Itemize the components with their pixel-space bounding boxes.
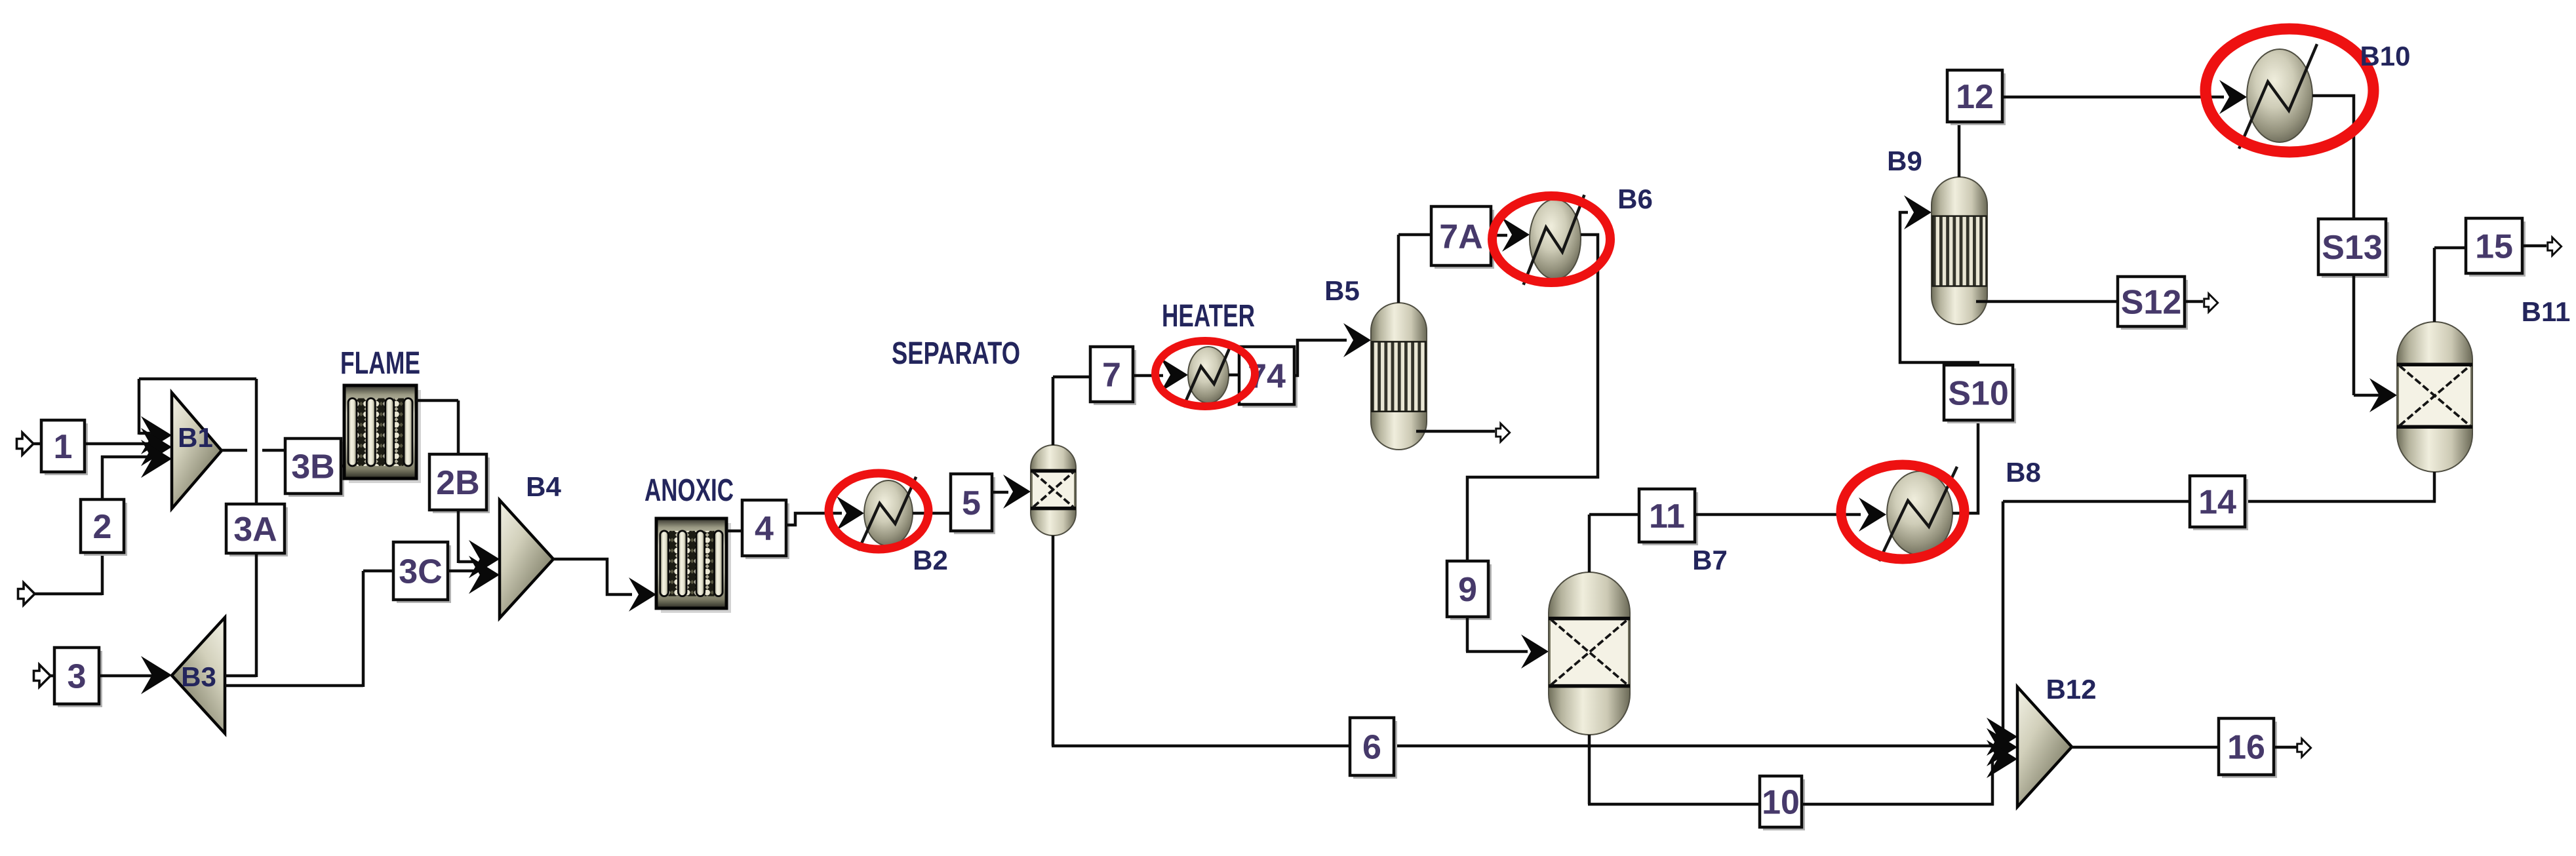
wire recycle into B1: [139, 432, 156, 435]
wire 4 to B2: [786, 513, 842, 525]
red annotation circle around B8: [1841, 465, 1964, 559]
wire S13 down: [2352, 275, 2356, 395]
wire 3B to FLAME: [341, 465, 344, 468]
wire B4 to ANOXIC: [553, 559, 632, 594]
wire B9 bottoms to S12: [1976, 300, 2118, 303]
arrowhead into B2: [837, 496, 864, 530]
product arrow 15: [2548, 237, 2562, 256]
wire feed to box 3: [50, 674, 54, 678]
wire feed to box 1: [33, 442, 41, 446]
stream box 4: [742, 500, 789, 559]
wire B12 outlet: [2072, 746, 2219, 749]
mixer B3: [172, 617, 225, 733]
stream box 6: [1350, 718, 1397, 779]
svg-text:B8: B8: [2006, 457, 2041, 488]
reactor ANOXIC: [656, 518, 731, 613]
svg-text:B12: B12: [2046, 674, 2096, 705]
stream box 15: [2466, 218, 2526, 277]
arrowhead into B6: [1502, 218, 1530, 252]
svg-text:4: 4: [755, 510, 774, 548]
svg-text:S12: S12: [2121, 284, 2182, 322]
arrowhead into B3: [141, 656, 172, 694]
wire 10 riser at B12: [1991, 759, 1994, 806]
svg-text:11: 11: [1649, 497, 1685, 535]
wire B7 bottom riser: [1588, 735, 1591, 804]
arrowhead into HEATER: [1160, 358, 1188, 392]
wire 2 to B1: [101, 456, 156, 459]
arrowhead into B1 (stream 1): [141, 428, 172, 466]
mixer B4: [500, 500, 553, 618]
wire 14 down to B12: [2002, 501, 2005, 749]
arrowhead into B10: [2219, 80, 2247, 114]
wire B1 outlet b: [262, 449, 285, 452]
svg-text:10: 10: [1762, 784, 1800, 822]
svg-text:2B: 2B: [436, 464, 479, 502]
heat exchanger B2: [858, 477, 916, 551]
wire B11 top riser: [2433, 248, 2436, 322]
arrowhead into B12 (stream 6): [1987, 718, 2017, 756]
red annotation circle around B2: [829, 473, 928, 549]
product arrow 16: [2297, 739, 2311, 757]
feed arrow stream 2: [18, 583, 35, 605]
svg-text:3B: 3B: [291, 448, 334, 486]
stream box 3C: [393, 542, 451, 603]
svg-text:2: 2: [93, 508, 112, 546]
arrowhead into B1 (recycle): [141, 416, 172, 454]
svg-text:15: 15: [2475, 228, 2513, 266]
stream box 3A: [226, 504, 288, 556]
svg-text:14: 14: [2198, 484, 2236, 522]
svg-text:7: 7: [1102, 357, 1121, 395]
wire down to 2B: [457, 400, 460, 454]
stream box 11: [1639, 489, 1698, 545]
svg-text:9: 9: [1458, 571, 1477, 609]
wire 2B down: [457, 510, 460, 563]
feed arrow stream 3: [34, 665, 51, 687]
arrowhead into B1 (stream 2): [141, 440, 172, 478]
wire recycle left drop: [138, 379, 141, 435]
stream box 10: [1760, 776, 1805, 830]
svg-text:1: 1: [54, 428, 73, 466]
svg-text:SEPARATO: SEPARATO: [892, 336, 1020, 371]
red annotation circle around HEATER: [1155, 341, 1255, 406]
wire into 3C: [363, 570, 393, 573]
wire 1 to B1: [85, 442, 153, 446]
stream box 2: [81, 499, 127, 556]
svg-text:HEATER: HEATER: [1162, 299, 1255, 334]
red annotation circle around B10: [2206, 29, 2373, 152]
arrowhead into B12 (stream 14): [1987, 728, 2017, 766]
svg-text:B2: B2: [913, 545, 948, 575]
stream box 5: [951, 474, 995, 534]
stream box 3: [54, 648, 102, 707]
arrowhead into ANOXIC: [629, 577, 656, 612]
wire SEPARATO top riser: [1052, 377, 1055, 445]
stream box 3B: [285, 438, 344, 497]
wire to box 10: [1588, 803, 1760, 806]
arrowhead into B8: [1859, 497, 1886, 532]
feed arrow stream 1: [17, 433, 34, 455]
column B5: [1371, 303, 1427, 450]
wire recycle top: [139, 378, 256, 381]
heat exchanger B8: [1879, 467, 1957, 561]
svg-text:5: 5: [962, 484, 981, 522]
arrowhead into B5: [1343, 323, 1371, 357]
wire S10 up to B9: [1900, 212, 1979, 362]
wire 15 out: [2522, 244, 2546, 248]
wire to box 15: [2434, 246, 2466, 250]
stream box S12: [2118, 277, 2188, 330]
wire stream 6 long run: [1052, 745, 1995, 748]
svg-text:3: 3: [68, 658, 87, 696]
column B9: [1932, 177, 1987, 324]
arrowhead into B7: [1521, 634, 1549, 669]
wire B8 outlet up (stream S10): [1952, 365, 1978, 513]
wire 7A to B6: [1491, 234, 1507, 237]
wire B11 bottoms (stream 14): [2003, 472, 2434, 501]
wire 3C to B4: [448, 570, 475, 573]
wire feed 2 horizontal: [34, 593, 102, 596]
svg-text:16: 16: [2227, 729, 2265, 767]
wire 10 run to B12: [1802, 803, 1994, 806]
arrowhead into SEPARATO: [1003, 475, 1031, 509]
stream box 74: [1239, 347, 1298, 408]
svg-text:B3: B3: [181, 661, 216, 692]
wire 12 to B10: [2002, 96, 2224, 99]
stream box 12: [1947, 70, 2006, 125]
stream box 1: [41, 420, 88, 475]
wire 9 to B7: [1466, 650, 1528, 653]
wire 3 to B3: [99, 674, 157, 678]
wire to B5: [1294, 340, 1347, 376]
product arrow B5 bottoms: [1496, 423, 1510, 442]
stream box 16: [2219, 718, 2277, 778]
wire 3A down to B3 outlet: [255, 553, 258, 677]
reactor FLAME: [344, 385, 421, 483]
svg-text:FLAME: FLAME: [340, 346, 420, 381]
svg-text:B10: B10: [2360, 41, 2410, 71]
wire B5 bottoms product: [1416, 430, 1495, 433]
svg-text:3C: 3C: [399, 553, 442, 591]
heat exchanger B10: [2239, 44, 2317, 149]
flash drum B7: [1549, 572, 1630, 735]
wire B10 outlet down (S13): [2312, 96, 2354, 219]
arrowhead into B11: [2369, 378, 2397, 412]
wire 5 out: [992, 491, 1008, 494]
svg-text:B9: B9: [1887, 146, 1922, 176]
stream box 9: [1447, 561, 1492, 620]
svg-text:B11: B11: [2522, 296, 2571, 327]
wire FLAME outlet: [416, 399, 458, 402]
svg-text:B6: B6: [1617, 184, 1653, 214]
arrowhead into B4 (2B): [469, 540, 500, 578]
mixer B12: [2017, 687, 2072, 807]
svg-text:6: 6: [1362, 729, 1381, 767]
wire 16 out: [2274, 746, 2297, 749]
arrowhead into B4 (3C): [469, 556, 500, 594]
stream box S13: [2318, 219, 2389, 278]
wire S12 out: [2185, 300, 2203, 303]
flash drum B11: [2397, 322, 2472, 472]
wire B3 outlet 2: [225, 684, 363, 688]
wire B1 outlet a: [222, 449, 247, 452]
wire 2 riser to B1: [101, 456, 104, 499]
svg-text:B1: B1: [178, 422, 213, 453]
stream box 14: [2190, 476, 2248, 530]
svg-text:B4: B4: [526, 471, 561, 502]
mixer B1: [172, 393, 222, 509]
wire B6 outlet to box 9: [1467, 235, 1598, 561]
flash drum SEPARATO: [1031, 445, 1076, 535]
wire B2 to box 5: [913, 512, 951, 515]
wire B3 outlet to 3A riser: [225, 674, 256, 678]
red annotation circle around B6: [1492, 196, 1610, 282]
wire riser to 3C: [362, 571, 365, 687]
wire 2B to B4: [458, 560, 473, 564]
svg-text:S10: S10: [1948, 375, 2009, 413]
svg-text:B5: B5: [1324, 275, 1360, 306]
wire B9 top riser: [1958, 122, 1961, 177]
wire B7 top riser: [1588, 515, 1591, 572]
svg-text:12: 12: [1956, 78, 1994, 116]
wire SEPARATO bottom riser (stream 6): [1052, 535, 1055, 746]
wire to box 7: [1053, 376, 1090, 379]
svg-text:3A: 3A: [233, 511, 277, 549]
svg-text:B7: B7: [1692, 545, 1728, 575]
wire 11 to B8: [1695, 513, 1861, 516]
svg-text:S13: S13: [2322, 229, 2383, 267]
wire 7 to HEATER: [1133, 374, 1163, 378]
stream box S10: [1944, 365, 2016, 423]
svg-text:ANOXIC: ANOXIC: [644, 473, 734, 508]
stream box 2B: [429, 454, 490, 513]
wire to box 11: [1589, 513, 1639, 516]
wire ANOXIC to box 4: [726, 530, 742, 533]
heat exchanger B6: [1524, 195, 1585, 284]
stream box 7A: [1431, 206, 1494, 269]
stream box 7: [1090, 347, 1136, 405]
wire to box 7A: [1398, 233, 1431, 237]
svg-text:7A: 7A: [1439, 218, 1482, 256]
product arrow S12: [2204, 294, 2218, 312]
wire recycle right drop to 3A: [255, 379, 258, 504]
heat exchanger HEATER: [1183, 343, 1232, 407]
arrowhead into B9: [1904, 195, 1932, 229]
arrowhead into B12 (stream 10): [1987, 740, 2017, 778]
wire HEATER out: [1229, 374, 1239, 377]
wire feed 2 riser: [101, 553, 104, 595]
wire S13 to B11: [2354, 394, 2381, 397]
wire B5 top riser: [1397, 235, 1400, 303]
wire 9 down: [1466, 617, 1469, 652]
